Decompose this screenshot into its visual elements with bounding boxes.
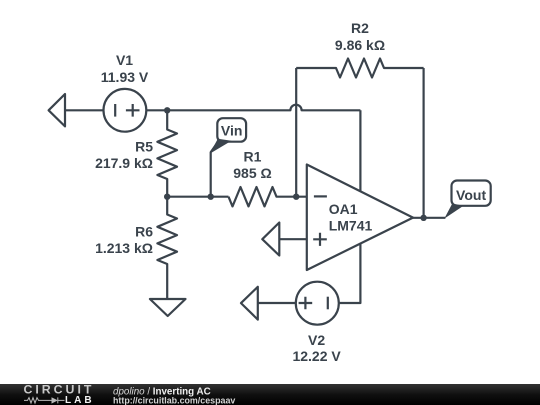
svg-text:R2: R2 [351, 20, 369, 36]
ground flag at V2 left terminal [241, 287, 258, 320]
svg-text:LM741: LM741 [329, 218, 373, 234]
V2 minus bar [327, 297, 329, 310]
voltage source V2 [296, 282, 339, 325]
node flag Vout box [452, 181, 491, 206]
svg-text:http://circuitlab.com/cespaav: http://circuitlab.com/cespaav [113, 395, 235, 405]
wire Vin flag stem [211, 141, 219, 197]
V2 plus sign [299, 297, 313, 310]
wire feedback left vertical [295, 68, 297, 197]
node junction V1/R5 [164, 107, 170, 113]
node junction Vin flag [208, 194, 214, 200]
node flag Vin pointer [210, 139, 232, 154]
svg-text:217.9 kΩ: 217.9 kΩ [95, 155, 153, 171]
V1 plus sign [126, 104, 140, 117]
node junction output / feedback [420, 215, 426, 221]
svg-text:9.86 kΩ: 9.86 kΩ [335, 37, 385, 53]
wire op-amp output [413, 217, 445, 219]
svg-text:11.93 V: 11.93 V [101, 69, 149, 85]
svg-text:V1: V1 [116, 52, 133, 68]
node flag Vout pointer [444, 204, 463, 219]
resistor R2 [296, 59, 423, 78]
wire V2 left terminal to ground flag [258, 302, 296, 304]
logo mini schematic resistor and diode [24, 397, 65, 403]
svg-text:R6: R6 [135, 224, 153, 240]
node junction inverting input / feedback [293, 194, 299, 200]
wire V1 left terminal to ground flag [65, 109, 104, 111]
op-amp non-inverting input plus sign [313, 233, 327, 246]
V1 minus bar [114, 104, 116, 117]
voltage source V1 [104, 89, 147, 132]
wire non-inverting input [279, 238, 307, 240]
wire top rail V1 to opamp V+ corner (hop over feedback) [146, 105, 360, 111]
ground flag at V1 left terminal [49, 94, 65, 126]
svg-text:985 Ω: 985 Ω [233, 165, 271, 181]
wire middle rail to R1 [167, 196, 228, 198]
svg-text:V2: V2 [308, 332, 325, 348]
op-amp inverting input minus sign [314, 195, 327, 197]
svg-text:1.213 kΩ: 1.213 kΩ [95, 240, 153, 256]
ground symbol below R6 [150, 299, 186, 316]
svg-text:12.22 V: 12.22 V [292, 348, 341, 364]
svg-text:LAB: LAB [65, 395, 95, 405]
resistor R6 [157, 197, 177, 299]
svg-text:Vin: Vin [221, 123, 243, 139]
wire opamp V- supply to V2 [339, 244, 361, 303]
wire opamp V+ supply vertical [359, 110, 361, 191]
op-amp OA1 triangle [307, 165, 413, 271]
resistor R5 [157, 110, 177, 196]
svg-text:R1: R1 [244, 149, 262, 165]
footer bar [0, 384, 540, 405]
ground flag at non-inverting input [262, 223, 279, 256]
wire feedback right vertical to output [423, 68, 425, 218]
node flag Vin box [217, 118, 246, 142]
svg-text:Vout: Vout [456, 187, 486, 203]
svg-text:OA1: OA1 [329, 201, 358, 217]
resistor R1 [229, 187, 307, 206]
node junction R5/R6/R1 [164, 194, 170, 200]
svg-text:R5: R5 [135, 139, 153, 155]
